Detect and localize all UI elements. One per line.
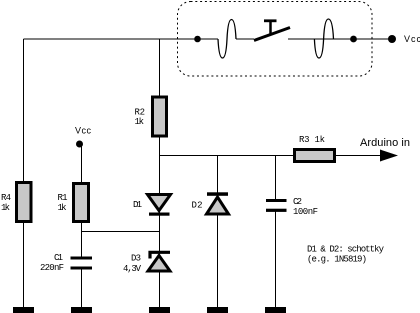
svg-text:100nF: 100nF (293, 207, 318, 217)
svg-text:R3 1k: R3 1k (299, 135, 325, 145)
svg-text:(e.g. 1N5819): (e.g. 1N5819) (307, 255, 367, 265)
svg-text:D1 & D2: schottky: D1 & D2: schottky (307, 245, 385, 255)
svg-text:C1: C1 (54, 253, 63, 263)
svg-text:1k: 1k (58, 203, 67, 213)
svg-text:C2: C2 (293, 197, 302, 207)
svg-text:R2: R2 (135, 108, 146, 118)
svg-text:4,3V: 4,3V (123, 264, 142, 274)
svg-text:D2: D2 (192, 201, 203, 211)
svg-text:R4: R4 (1, 193, 11, 203)
svg-text:1k: 1k (1, 203, 10, 213)
svg-text:Arduino in: Arduino in (360, 137, 410, 149)
svg-text:1k: 1k (135, 117, 145, 127)
svg-text:R1: R1 (58, 193, 68, 203)
svg-text:Vcc: Vcc (404, 34, 420, 44)
svg-text:220nF: 220nF (40, 263, 64, 273)
svg-text:D1: D1 (133, 200, 142, 210)
svg-text:D3: D3 (131, 254, 141, 264)
svg-text:Vcc: Vcc (75, 126, 92, 136)
